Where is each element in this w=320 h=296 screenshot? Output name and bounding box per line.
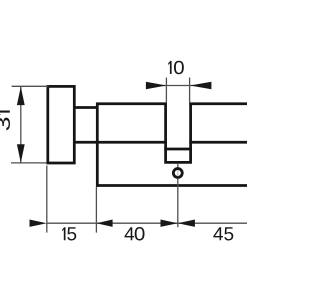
body mid line right of cam slot <box>189 141 247 144</box>
arrow up dim 31 <box>17 87 25 106</box>
centerline above screw hole <box>177 164 179 169</box>
cam tab inner line <box>164 148 192 151</box>
label 10 <box>168 61 184 74</box>
centerline screw hole <box>177 179 179 228</box>
arrow left-pointing dim 45 <box>178 220 195 227</box>
label 31 <box>0 111 10 131</box>
thumbturn knob outline <box>48 86 75 163</box>
label 15 <box>62 227 76 240</box>
cam slot walls and tab <box>166 103 191 163</box>
arrow left-pointing dim 10 <box>190 82 212 90</box>
extension line cam slot left <box>165 78 167 104</box>
body top edge right of cam slot <box>189 102 247 105</box>
arrow down dim 31 <box>17 144 25 163</box>
extension line bottom of knob <box>11 162 47 164</box>
dimension line 31 <box>20 86 22 162</box>
body mid line left of cam slot <box>73 141 167 144</box>
arrow left-pointing at body face <box>96 220 112 227</box>
label 45 <box>213 227 233 240</box>
dimension line 10 <box>146 85 212 87</box>
extension line body left face <box>95 187 97 233</box>
extension line top of knob <box>12 85 49 87</box>
body left edge <box>96 103 99 187</box>
fixing screw hole circle <box>173 169 182 178</box>
arrow right-pointing dim 10 <box>146 82 167 90</box>
label 40 <box>125 227 145 240</box>
body bottom edge <box>96 184 247 187</box>
extension line cam slot right <box>189 78 191 104</box>
extension line knob left face <box>46 166 48 233</box>
centerline through screw hole <box>177 170 179 176</box>
arrow right-pointing dim 15 left <box>30 220 47 227</box>
neck top edge <box>73 106 97 109</box>
arrow right-pointing dim 40 <box>161 220 178 227</box>
body top edge left of cam slot <box>96 102 167 105</box>
bottom dimension line <box>47 222 247 224</box>
